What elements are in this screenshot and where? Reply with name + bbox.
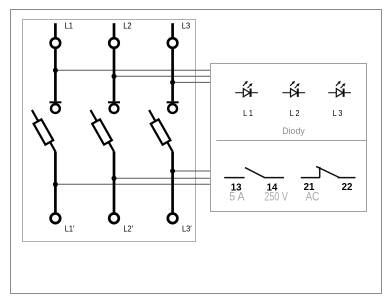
- wire L3&#8242; tap to indicator (lower): [173, 170, 210, 172]
- fuse F1 blade: [32, 110, 56, 152]
- svg-text:L3′: L3′: [182, 223, 192, 233]
- terminal L1: [51, 21, 74, 48]
- svg-text:L2′: L2′: [123, 223, 133, 233]
- svg-text:L1′: L1′: [65, 223, 75, 233]
- svg-text:L1: L1: [65, 21, 74, 31]
- terminal L2: [109, 21, 132, 48]
- main switch enclosure outline: [23, 20, 196, 242]
- LED L3: [328, 81, 351, 118]
- fuse-switch fixed contact L2: [108, 102, 120, 113]
- node L1&#8242; tap junction: [53, 182, 58, 187]
- node L3&#8242; tap junction: [170, 169, 175, 174]
- fuse F1 body: [34, 119, 54, 144]
- node L3 tap junction: [170, 80, 175, 85]
- wire L3 lower vertical: [171, 152, 174, 214]
- svg-text:L2: L2: [123, 21, 132, 31]
- wire L1 tap to indicator (upper): [55, 69, 210, 71]
- wire L1 lower vertical: [54, 152, 57, 214]
- svg-text:5 A: 5 A: [229, 190, 245, 204]
- terminal L3: [168, 21, 191, 48]
- wire L2 lower vertical: [113, 152, 116, 214]
- fuse F3 body: [151, 119, 171, 144]
- fuse-switch fixed contact L3: [167, 102, 179, 113]
- wire L2 upper vertical: [113, 49, 116, 102]
- wire L2&#8242; tap to indicator (lower): [114, 177, 210, 179]
- auxiliary contact 21-22 (NC): [301, 166, 356, 177]
- fuse F2 body: [92, 119, 112, 144]
- svg-text:Diody: Diody: [282, 126, 305, 136]
- node L2 tap junction: [112, 74, 117, 79]
- terminal L2&#8242;: [109, 214, 133, 234]
- svg-text:22: 22: [342, 182, 353, 193]
- fuse F3 blade: [149, 110, 173, 152]
- node L1 tap junction: [53, 68, 58, 73]
- svg-text:250 V: 250 V: [264, 190, 288, 204]
- svg-text:L 2: L 2: [290, 108, 300, 118]
- svg-text:L 1: L 1: [243, 108, 253, 118]
- terminal L1&#8242;: [51, 214, 75, 234]
- wire L3 upper vertical: [171, 49, 174, 102]
- auxiliary contact 13-14 (NO): [224, 168, 284, 178]
- LED L1: [235, 81, 258, 118]
- wire L1&#8242; tap to indicator (lower): [55, 183, 210, 185]
- terminal L3&#8242;: [168, 214, 192, 234]
- indicator module outline: [211, 64, 367, 212]
- wire L2 tap to indicator (upper): [114, 75, 210, 77]
- divider line: [216, 140, 366, 142]
- svg-text:L 3: L 3: [333, 108, 343, 118]
- LED L2: [282, 81, 305, 118]
- wire L1 upper vertical: [54, 49, 57, 102]
- fuse-switch fixed contact L1: [49, 102, 61, 113]
- svg-text:L3: L3: [182, 21, 191, 31]
- fuse F2 blade: [91, 110, 115, 152]
- node L2&#8242; tap junction: [112, 176, 117, 181]
- svg-text:AC: AC: [306, 190, 320, 204]
- wire L3 tap to indicator (upper): [173, 81, 210, 83]
